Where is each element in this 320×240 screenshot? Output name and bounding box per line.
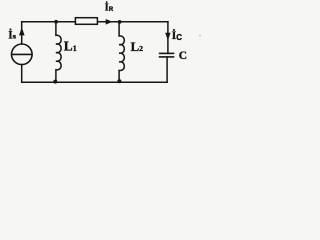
node C1 (bottom node of L1) [53, 80, 57, 84]
arrow for current IR (rightward on top wire) [106, 19, 113, 25]
speck (scan artifact) [199, 35, 201, 37]
node A (top node of L1) [54, 20, 58, 24]
wire top-left vertical (source to top-left corner) [21, 22, 23, 44]
svg-text:L2: L2 [131, 40, 144, 54]
wire top horizontal right segment [97, 21, 167, 23]
wire top horizontal left segment [22, 21, 76, 23]
wire bottom-left vertical (circle to bottom corner) [21, 65, 23, 83]
inductor L1 [56, 23, 61, 83]
svg-text:İC: İC [172, 28, 183, 42]
arrow for current IC (downward on right rail) [165, 33, 170, 40]
svg-text:İs: İs [8, 30, 16, 42]
inductor L2 [119, 23, 124, 83]
arrow for source current Is (upward on left rail) [19, 27, 25, 35]
svg-text:L1: L1 [64, 38, 77, 53]
svg-text:C: C [179, 50, 187, 62]
wire right rail lower (capacitor to bottom corner) [166, 57, 168, 82]
node B (top node of L2) [118, 20, 122, 24]
capacitor C (two plates) [159, 53, 175, 57]
current source Is (circle with horizontal bar) [11, 44, 32, 65]
wire right rail upper [167, 22, 169, 54]
resistor R (rectangle in top wire) [75, 18, 97, 25]
wire bottom horizontal [22, 81, 167, 83]
svg-text:İR: İR [105, 2, 114, 14]
node D (bottom node of L2) [117, 79, 121, 83]
